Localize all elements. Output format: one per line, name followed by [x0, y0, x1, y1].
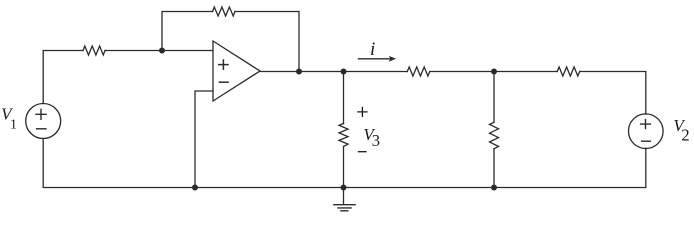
resistor (feedback, top) [213, 7, 236, 16]
wire input resistor to op-amp noninverting input [105, 50, 213, 52]
V3 minus sign [358, 151, 367, 153]
resistor (series 2) [557, 67, 580, 76]
node inverting input on bottom rail [192, 185, 198, 191]
node V3 branch top [341, 69, 347, 75]
wire feedback left vertical [162, 12, 213, 51]
wire bottom rail [43, 139, 646, 188]
wire V3 branch vertical top [343, 72, 345, 124]
resistor (series 1, right of i) [407, 67, 430, 76]
resistor (input, top-left) [83, 46, 105, 55]
wire V3 branch vertical bottom [343, 147, 345, 188]
node middle shunt bottom [491, 185, 497, 191]
op-amp plus input marker [219, 60, 228, 69]
svg-text:3: 3 [372, 131, 380, 150]
resistor (shunt 2, middle) [490, 122, 499, 149]
node V3 bottom / ground junction [341, 185, 347, 191]
wire series2 to V2 top [580, 72, 646, 115]
ground [343, 188, 345, 205]
resistor (shunt, V3) [339, 124, 348, 147]
wire V1 top to input resistor [43, 51, 83, 104]
V2 plus sign [641, 120, 651, 129]
svg-text:2: 2 [681, 126, 689, 145]
node op-amp output / feedback junction [296, 69, 302, 75]
wire middle shunt vertical bottom [493, 149, 495, 188]
V3 plus sign [357, 107, 367, 117]
svg-text:i: i [370, 39, 375, 60]
wire middle shunt vertical top [493, 72, 495, 123]
V2 minus sign [642, 140, 651, 142]
V1 plus sign [36, 109, 46, 119]
svg-text:1: 1 [10, 118, 17, 133]
voltage source V2 [629, 114, 664, 149]
wire V2 bottom [645, 148, 647, 187]
op-amp U1 [213, 41, 260, 101]
wire series1 to middle node [430, 71, 557, 73]
op-amp minus input marker [219, 81, 228, 83]
wire feedback right to output node [235, 12, 299, 72]
current arrow for i [359, 58, 392, 60]
node at noninverting input junction [159, 48, 165, 54]
wire inverting input to ground rail [195, 91, 213, 188]
V1 minus sign [37, 128, 46, 130]
voltage source V1 [26, 104, 61, 139]
node middle shunt top [491, 69, 497, 75]
wire op-amp output [260, 71, 407, 73]
